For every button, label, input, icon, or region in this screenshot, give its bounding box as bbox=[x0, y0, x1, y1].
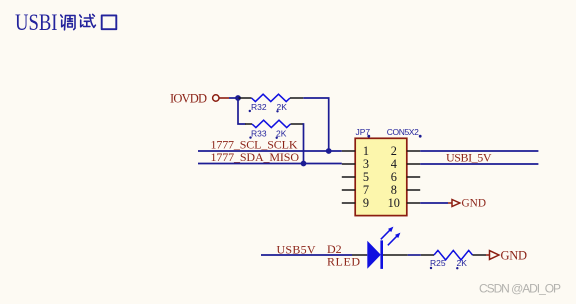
svg-text:USBI_5V: USBI_5V bbox=[446, 150, 492, 164]
pin 4 bbox=[407, 163, 420, 165]
wire D2 to R25 bbox=[408, 254, 421, 256]
wire R32 to junction B bbox=[303, 98, 328, 151]
connector JP7 CON5X2 bbox=[342, 127, 422, 215]
resistor R32 bbox=[239, 94, 304, 112]
svg-text:6: 6 bbox=[391, 170, 397, 184]
svg-text:R32: R32 bbox=[251, 102, 267, 112]
pin 6 bbox=[407, 176, 420, 178]
diode D2 RLED bbox=[327, 227, 408, 269]
svg-text:1: 1 bbox=[363, 144, 369, 158]
wire R33 to junction C bbox=[303, 124, 304, 164]
power port IOVDD bbox=[170, 92, 229, 106]
试 bbox=[80, 14, 96, 27]
svg-text:8: 8 bbox=[391, 183, 397, 197]
svg-text:RLED: RLED bbox=[327, 255, 360, 269]
pin 7 bbox=[342, 189, 355, 191]
svg-text:CSDN @ADI_OP: CSDN @ADI_OP bbox=[479, 282, 561, 296]
wire pin 4 net bbox=[420, 163, 538, 165]
resistor R33 bbox=[245, 120, 303, 139]
wire junction A down to R33 row bbox=[238, 98, 246, 124]
power port GND (connector) bbox=[448, 197, 486, 209]
title USBI调试口 bbox=[15, 10, 116, 35]
pin 9 bbox=[342, 202, 355, 204]
pin 10 bbox=[407, 202, 420, 204]
svg-text:USB5V: USB5V bbox=[277, 242, 316, 256]
pin 8 bbox=[407, 189, 420, 191]
svg-text:1777_SDA_MISO: 1777_SDA_MISO bbox=[211, 150, 300, 164]
svg-text:2: 2 bbox=[391, 144, 397, 158]
svg-text:IOVDD: IOVDD bbox=[170, 92, 207, 106]
svg-text:5: 5 bbox=[363, 170, 369, 184]
svg-text:GND: GND bbox=[501, 248, 528, 262]
svg-text:R25: R25 bbox=[430, 258, 446, 268]
svg-text:GND: GND bbox=[462, 197, 487, 209]
svg-text:CON5X2: CON5X2 bbox=[387, 127, 419, 137]
svg-text:3: 3 bbox=[363, 157, 369, 171]
wire USB5V net bbox=[261, 254, 352, 256]
wire pin 2 net bbox=[420, 150, 538, 152]
wire pin 10 to GND bbox=[420, 202, 448, 204]
pin 2 bbox=[407, 150, 420, 152]
调 bbox=[61, 15, 75, 30]
svg-text:7: 7 bbox=[363, 183, 369, 197]
svg-text:9: 9 bbox=[363, 196, 369, 210]
svg-text:10: 10 bbox=[388, 196, 400, 210]
resistor R25 bbox=[421, 250, 486, 269]
pin 1 bbox=[342, 150, 355, 152]
pin 3 bbox=[342, 163, 355, 165]
power port GND (R25) bbox=[486, 248, 527, 262]
svg-text:4: 4 bbox=[391, 157, 397, 171]
wire SDA bbox=[198, 163, 342, 165]
口 bbox=[102, 15, 117, 29]
junction B on SCL wire bbox=[326, 148, 332, 154]
pin 5 bbox=[342, 176, 355, 178]
junction C on SDA wire bbox=[301, 161, 307, 167]
wire SCL bbox=[198, 150, 342, 152]
wire IOVDD to junction A bbox=[229, 97, 238, 99]
svg-text:USBI: USBI bbox=[15, 10, 58, 35]
junction A bbox=[235, 95, 241, 101]
svg-text:2K: 2K bbox=[457, 258, 468, 268]
